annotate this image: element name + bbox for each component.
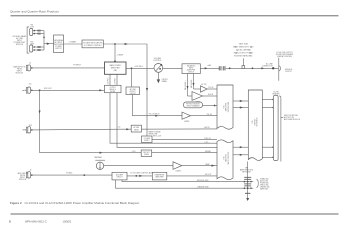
chassis ground arrow	[246, 198, 249, 201]
svg-text:+15V REG: +15V REG	[143, 138, 150, 140]
svg-text:ANOTHER MODULE: ANOTHER MODULE	[284, 118, 301, 121]
wire driver to header 2	[262, 107, 273, 109]
wire amplifier out right	[126, 67, 154, 69]
svg-text:MODULE: MODULE	[16, 44, 24, 46]
svg-text:SENSE: SENSE	[134, 129, 139, 131]
aux input text block	[18, 172, 29, 181]
svg-text:SPK OUT: SPK OUT	[44, 88, 53, 90]
svg-text:+15V REG: +15V REG	[134, 66, 143, 68]
svg-text:CL1/CX12 and CL1/CX12MA 120W P: CL1/CX12 and CL1/CX12MA 120W Power Ampli…	[25, 201, 140, 205]
amplifier output riser 2	[116, 74, 118, 85]
wire AC line 4 with ferrite	[33, 49, 44, 51]
amplifier A1 (main power amplifier)	[105, 62, 127, 74]
svg-text:OUT +: OUT +	[205, 142, 210, 144]
svg-text:SENSE: SENSE	[205, 151, 212, 153]
wire AC line 1 with ferrite	[33, 30, 44, 32]
wire spec stack to line with sense box	[242, 58, 244, 65]
svg-text:+V MAIN: +V MAIN	[69, 41, 77, 44]
junction node row 1	[247, 181, 249, 183]
wire aux input	[32, 174, 112, 176]
svg-text:TO VOLUME CONTROL ADJUST: TO VOLUME CONTROL ADJUST	[130, 172, 156, 175]
output connector arc	[279, 66, 280, 71]
connector pin pair P2	[222, 66, 225, 70]
svg-text:Quarter and Quarter-Rack Produ: Quarter and Quarter-Rack Products	[10, 10, 59, 14]
arrow on output line	[261, 67, 264, 69]
wire down from speaker junction	[39, 90, 41, 152]
AC bus	[43, 31, 45, 50]
svg-text:+V AMP: +V AMP	[117, 54, 124, 57]
svg-text:OUTPUT -: OUTPUT -	[115, 77, 117, 85]
wire aux gnd riser 2	[116, 180, 248, 188]
connector pin pair P1	[218, 66, 221, 70]
label module output	[285, 69, 293, 73]
svg-text:A/D IN: A/D IN	[205, 126, 211, 129]
label at wiper	[162, 79, 168, 83]
wire long vertical from note	[278, 58, 280, 81]
wire junction down to detector	[131, 68, 133, 87]
svg-text:J6: J6	[30, 169, 32, 171]
wire line sense long	[32, 129, 217, 130]
wire front panel riser	[279, 96, 281, 162]
wire U6 in	[188, 95, 193, 97]
wire volume to balanced input	[162, 67, 182, 69]
svg-text:THE: THE	[252, 120, 254, 123]
svg-text:THE: THE	[224, 156, 226, 159]
wire pill to processor	[203, 105, 218, 107]
sense box A	[131, 125, 141, 132]
wire PSU to regulator	[64, 43, 83, 45]
right top note text	[276, 52, 294, 58]
supervisor tall box U1	[217, 85, 233, 129]
svg-text:& CURRENT LIMITING: & CURRENT LIMITING	[84, 45, 102, 47]
svg-text:CHASSIS GND: CHASSIS GND	[197, 186, 209, 189]
output node	[272, 67, 274, 69]
svg-text:SHIELD GND: SHIELD GND	[260, 184, 269, 186]
svg-text:POWER GND: POWER GND	[260, 182, 269, 184]
svg-text:CONTROL: CONTROL	[153, 60, 161, 62]
wire junction down to amplifier	[114, 44, 116, 62]
svg-text:MONITOR: MONITOR	[226, 153, 228, 161]
wire U1 to display driver 2	[233, 107, 248, 109]
svg-text:DETECT: DETECT	[130, 91, 136, 93]
pill label bar	[184, 102, 203, 108]
aux amplifier A2	[112, 172, 127, 180]
svg-text:MODULE: MODULE	[19, 179, 27, 181]
footer rule	[11, 213, 339, 215]
svg-text:MODULE GND: MODULE GND	[197, 180, 209, 182]
note multi purpose text	[284, 115, 301, 121]
op-amp U7	[182, 112, 191, 119]
capacitor C2	[244, 183, 251, 185]
wire aux amp to headphone amp	[127, 175, 152, 177]
main input text block	[13, 65, 26, 74]
svg-text:WPA-MAN-0612-C: WPA-MAN-0612-C	[25, 220, 47, 224]
wire balanced input to connector pins	[200, 67, 219, 69]
wire headphone amp to monitor	[167, 175, 217, 177]
wire aux gnd riser 1	[122, 180, 248, 182]
amplifier output riser 1	[109, 74, 111, 85]
svg-text:GAIN: 30dB: GAIN: 30dB	[239, 43, 249, 46]
supervisor tall box U1b	[217, 140, 233, 180]
svg-text:+4 dBu LIMITER: +4 dBu LIMITER	[237, 50, 250, 52]
wire speaker output	[32, 89, 105, 91]
arrow on +V rail	[125, 43, 128, 45]
wire pins to output node	[226, 67, 278, 69]
junction node row 2	[247, 187, 249, 189]
svg-text:PSU OK: PSU OK	[205, 138, 212, 140]
line sense note text	[149, 130, 161, 135]
balanced amp feedback wire 1	[187, 74, 189, 97]
output filter box FL1	[105, 85, 122, 92]
power supply PS1	[54, 35, 64, 53]
connector J2 pins	[34, 46, 36, 48]
wire stub right row2	[248, 187, 254, 189]
svg-text:SUPPLY: SUPPLY	[144, 140, 149, 142]
wire U6 out	[203, 95, 218, 97]
headphone amplifier A3	[152, 172, 167, 180]
tick to note	[281, 117, 283, 119]
wire U1b to display driver 4	[233, 154, 248, 156]
volume control VR1 label	[153, 58, 162, 62]
AC mains source text block	[13, 35, 27, 46]
voltage regulator U10	[82, 40, 103, 48]
header connector label	[272, 92, 280, 96]
header connector bar J6	[273, 95, 278, 160]
wire box B out	[152, 138, 217, 140]
connector J5 (line sense)	[23, 129, 25, 131]
label AC line connector	[262, 62, 274, 67]
wire U1b to display driver 3	[233, 146, 248, 148]
svg-text:LM393: LM393	[184, 121, 189, 123]
wire box C out	[152, 152, 217, 154]
brace	[257, 179, 259, 187]
bracket for AC connectors	[27, 27, 29, 53]
connector J1 pins	[34, 30, 36, 32]
wire volume wiper to ground	[157, 72, 159, 79]
connector J3 (main input)	[26, 65, 27, 70]
svg-text:SUPERVISOR: SUPERVISOR	[228, 101, 230, 112]
svg-text:PROTECTION MUTE: PROTECTION MUTE	[186, 104, 200, 106]
junction	[252, 67, 254, 69]
op-amp U5	[201, 86, 208, 92]
svg-text:TVL OUTPUT: TVL OUTPUT	[149, 114, 161, 116]
svg-text:THE: THE	[224, 105, 226, 108]
svg-text:NETWORK: NETWORK	[242, 172, 251, 174]
svg-text:Figure 2: Figure 2	[10, 201, 22, 205]
svg-text:CIRCUIT: CIRCUIT	[116, 177, 122, 179]
connector J1 (AC input upper)	[30, 29, 33, 36]
capacitor C1	[244, 176, 251, 178]
wire detector to U7	[133, 95, 183, 116]
wire AC line 2 with ferrite	[33, 33, 44, 35]
svg-text:OUTPUT: OUTPUT	[110, 87, 116, 89]
speaker output text block	[22, 89, 24, 91]
balanced input amplifier U2	[182, 64, 200, 74]
svg-text:MODULE: MODULE	[16, 72, 24, 74]
ground bar	[245, 192, 250, 194]
wire U1 to display driver 1	[233, 100, 248, 102]
svg-text:10/9/02: 10/9/02	[63, 220, 72, 224]
thermal switch bar	[95, 159, 105, 161]
junction	[131, 67, 133, 69]
svg-text:INPUT: INPUT	[189, 68, 194, 70]
junction node +V AMP	[114, 43, 116, 45]
volume control VR1	[154, 64, 163, 73]
svg-text:THERMAL: THERMAL	[94, 156, 102, 159]
svg-text:J10: J10	[29, 84, 32, 86]
svg-text:REG +15V: REG +15V	[153, 135, 162, 137]
wire U8 out	[182, 165, 217, 167]
connector J2 (AC input lower)	[30, 45, 33, 52]
svg-text:U5 TVL: U5 TVL	[201, 84, 207, 86]
svg-text:MUTE CONTROL: MUTE CONTROL	[228, 152, 230, 165]
ground stem	[247, 162, 249, 200]
svg-text:SIG IN: SIG IN	[208, 94, 214, 96]
wire U5 out	[194, 88, 201, 90]
wire regulator to corner	[103, 43, 147, 45]
svg-text:PANEL: PANEL	[162, 80, 167, 83]
svg-text:SENSE: SENSE	[144, 154, 149, 156]
svg-text:OUTPUT +: OUTPUT +	[108, 77, 110, 85]
display driver tall box U9	[248, 90, 262, 160]
svg-text:TP AUX: TP AUX	[66, 171, 73, 174]
protect box C	[141, 150, 152, 156]
spec text stack	[233, 43, 254, 58]
svg-text:OUTPUT: OUTPUT	[285, 71, 292, 73]
svg-text:+15: +15	[118, 126, 121, 128]
connector J7 (aux input)	[26, 172, 27, 178]
wire stub right row1	[248, 181, 254, 183]
svg-text:TVL IN: TVL IN	[208, 87, 214, 89]
svg-text:HP OUT: HP OUT	[205, 174, 211, 176]
header rule	[11, 15, 339, 17]
wire driver to header 1	[262, 99, 273, 101]
svg-text:(PA): (PA)	[114, 69, 118, 72]
svg-text:(PAIR AT CENTER): (PAIR AT CENTER)	[277, 55, 292, 58]
filter sense wire 1	[110, 93, 217, 144]
svg-text:PROTECT: PROTECT	[143, 152, 150, 154]
spec stack row ticks	[235, 46, 237, 48]
svg-text:CIRCUIT: CIRCUIT	[188, 72, 194, 74]
wire bus to PSU with arrow	[44, 43, 54, 45]
wire driver to header 3	[262, 146, 273, 148]
svg-text:EXCEEDS RATED MAX: EXCEEDS RATED MAX	[234, 55, 253, 58]
AC detector box U11	[126, 87, 140, 95]
wire main input to amplifier	[32, 67, 105, 69]
svg-text:SUPPLY: SUPPLY	[55, 48, 62, 50]
ground note list	[260, 177, 270, 190]
regulator box B	[142, 136, 153, 143]
svg-text:J4: J4	[29, 63, 31, 65]
thermal switch S1	[96, 162, 103, 169]
svg-text:LM393: LM393	[176, 171, 181, 173]
wire AC line 3 with ferrite	[33, 46, 44, 48]
wire +V rail down to regulator B	[146, 44, 148, 136]
wire U7 out	[191, 115, 218, 117]
wire corner to box C	[40, 152, 142, 154]
op-amp U6	[192, 92, 203, 101]
balanced amp feedback wire 2	[193, 74, 195, 90]
svg-text:CONNECTOR: CONNECTOR	[262, 65, 274, 67]
svg-text:TP INPUT: TP INPUT	[73, 65, 82, 67]
junction at speaker wire	[39, 89, 41, 91]
ground note text	[240, 168, 254, 174]
svg-text:TVL IN: TVL IN	[207, 114, 213, 116]
filter sense wire 2	[117, 93, 217, 148]
wire thermal to U8	[104, 165, 173, 167]
wire driver to header 4	[262, 156, 273, 158]
op-amp U8	[173, 162, 182, 170]
